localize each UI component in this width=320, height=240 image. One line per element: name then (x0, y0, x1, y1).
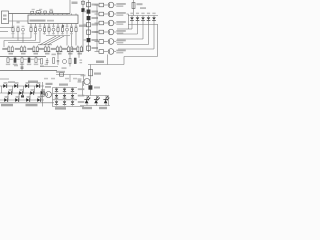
diode DM23 (63, 101, 66, 104)
diode DA3 (25, 84, 28, 88)
diode DC4 (37, 98, 40, 102)
wire matrix col 3 (72, 88, 74, 107)
ceramic filter F6 (67, 47, 69, 51)
resistor R18 (74, 58, 76, 64)
wire bus under caps (46, 35, 70, 37)
diode DM32 (71, 95, 74, 98)
wire Q11 base (43, 94, 46, 96)
label near U1 (17, 22, 20, 24)
resistor R17 (69, 58, 71, 64)
wire drop 1 (69, 75, 71, 83)
label Q6 type (116, 40, 126, 42)
diode DA2 (14, 84, 17, 88)
ceramic filter F7 (77, 47, 79, 51)
resistor R12 (21, 58, 23, 63)
component Z6 on chain (87, 38, 91, 42)
label 1N60 (28, 81, 38, 84)
component Z2 on chain (87, 10, 91, 14)
ceramic filter F5 (56, 47, 58, 51)
transistor Q5 (108, 29, 114, 35)
resistor R15 (41, 59, 43, 64)
diode DM13 (55, 101, 58, 104)
wire vertical mid (21, 63, 23, 71)
ceramic filter F3 (33, 47, 35, 51)
label mid small e (73, 78, 77, 80)
wire vertical x80 (82, 0, 84, 52)
wire right drop (157, 25, 159, 57)
diode DB4 (41, 91, 44, 95)
capacitor C19 (46, 60, 49, 62)
wire left routing c (8, 42, 40, 44)
label F3 value (34, 53, 39, 55)
inline resistor R2 on bus (44, 11, 47, 13)
U2 top pin wires (30, 14, 32, 16)
label IC2 TDA4503 (30, 20, 46, 22)
label FE3 (96, 61, 104, 64)
capacitor row C1-C14 below U2 (12, 28, 14, 32)
wire matrix rail 4 (53, 106, 85, 108)
wire bottom row2 rail (0, 92, 46, 94)
label Q4 type (116, 21, 126, 23)
label Q5 type (116, 30, 126, 32)
label matrix row1 (78, 88, 85, 90)
resistor R81 1W (133, 0, 135, 16)
diode DC3 (26, 98, 29, 102)
wire matrix step 5 (153, 25, 155, 50)
wire drop 2 (83, 75, 85, 87)
wire matrix rail 2 (53, 93, 78, 95)
diode DM22 (63, 95, 66, 98)
wire LED right rail (108, 96, 110, 106)
LED D52 (104, 100, 108, 104)
capacitor C20 (21, 66, 24, 68)
resistor R30 6.3W (89, 70, 93, 76)
label R81 value (140, 7, 146, 9)
wire drop p11 (75, 35, 77, 46)
coil L1 (36, 11, 41, 14)
IC U2 TDA4503 body (28, 15, 78, 24)
label F1 value (9, 53, 14, 55)
label mid small b (44, 78, 48, 80)
wire left pin feed (0, 27, 13, 29)
ceramic filter F4 (44, 47, 46, 51)
transistor Q6 (108, 39, 114, 45)
label F5 value (57, 53, 62, 55)
wire row link down (127, 13, 129, 15)
capacitor C15 (81, 1, 84, 4)
wire diode bus bottom (128, 24, 158, 26)
resistor R16 (53, 58, 55, 64)
label 10k (52, 54, 56, 56)
label right of U2 (79, 25, 87, 27)
U2 bottom pin wires (30, 24, 32, 28)
component Z4 on chain (87, 23, 91, 27)
wire diagonal 3 (48, 36, 64, 45)
resistor RB4 (95, 31, 100, 33)
wire bottom long rail (0, 102, 54, 104)
resistor RB5 (95, 41, 100, 43)
wire grid verticals upper (1, 86, 3, 93)
label matrix row3 (78, 101, 85, 103)
label Q10 (81, 75, 86, 77)
diode DB2 (19, 91, 22, 95)
label F1 YEX 85 (2, 48, 7, 50)
component Z1 on chain (87, 3, 91, 7)
wire LED top rail (82, 95, 109, 97)
wire top supply bus (9, 13, 71, 15)
resistor RB3 (95, 22, 100, 24)
label near drop2 (78, 80, 81, 82)
label F4 YEX 85 (39, 48, 44, 50)
wire vertical from U1 (12, 14, 14, 28)
diode DA1 (3, 84, 6, 88)
diode DM12 (55, 95, 58, 98)
capacitor C21 (57, 59, 59, 61)
transistor Q4 (108, 20, 114, 26)
label F2 YEX 85 (15, 48, 20, 50)
LED D50 (85, 100, 89, 104)
wire right chain vertical (88, 0, 90, 52)
wire drop p9 (66, 36, 68, 46)
label LED 1N60 (1, 104, 13, 107)
label Q3 type (116, 12, 126, 14)
LED D51 (94, 100, 98, 104)
label F6 YEX 85 (62, 48, 67, 50)
wire drop F7 to mid (78, 52, 80, 58)
wire LED bottom rail (80, 105, 110, 107)
wire diode bus top (128, 15, 158, 17)
component Z7 on chain (87, 46, 91, 50)
wire matrix rail 1 (53, 87, 78, 89)
resistor R14 (35, 58, 37, 63)
label 180ohm (82, 107, 92, 109)
resistor RB1 (95, 4, 100, 6)
wire matrix left rail (52, 88, 54, 107)
inline resistor R19 (60, 73, 64, 76)
transistor Q7 (108, 49, 114, 55)
label F5 YEX 85 (51, 48, 56, 50)
label mid small a (62, 67, 67, 69)
wire LED feed vertical (90, 65, 92, 96)
label 14V (72, 2, 78, 5)
wire lower link (9, 20, 29, 22)
wire vertical to top edge (69, 0, 71, 14)
wire left routing a (0, 37, 31, 39)
label LED (99, 107, 107, 109)
label 4.7 (14, 65, 18, 67)
wire drop F5 to mid (57, 52, 59, 60)
diode D23 (148, 16, 150, 18)
transistor Q1 (62, 59, 66, 63)
diode DM33 (71, 101, 74, 104)
label matrix top (59, 84, 68, 86)
IC module U1 box (2, 11, 9, 24)
small marks right mid (80, 60, 83, 61)
label Q10 pin b (78, 81, 82, 83)
resistor RB6 (95, 51, 100, 53)
wire Q10 left (83, 81, 85, 83)
diode D21 (137, 16, 139, 18)
resistor R10 (7, 58, 9, 63)
wire bus mid (38, 44, 52, 46)
diode DA4 (36, 84, 39, 88)
label F4 value (45, 53, 50, 55)
label matrix row2 (78, 95, 85, 97)
diode DM11 (55, 89, 58, 92)
label mid small d (65, 78, 69, 80)
wire driver feed vertical (96, 5, 98, 52)
diode DM21 (63, 89, 66, 92)
component Z3 on chain (87, 16, 91, 20)
label 145A (26, 104, 38, 107)
wire mid bus C (56, 74, 84, 76)
wire center-left vertical (42, 82, 44, 107)
wire bottom row3 rail (0, 99, 44, 101)
label Q10 pin a (78, 78, 82, 80)
transistor Q10 (84, 79, 90, 85)
label F7 YEX (71, 48, 76, 50)
wire mid bus B (0, 70, 57, 72)
wire drop F6 to mid (69, 52, 71, 58)
transistor Q2 (108, 2, 114, 8)
diode D15 (81, 8, 84, 12)
wire grid verticals lower (7, 93, 9, 100)
diode DM31 (71, 89, 74, 92)
wire drop p10 (71, 35, 73, 46)
wire row6 drop (107, 55, 109, 65)
wire drop to net FE (123, 57, 125, 65)
label Q7 type (116, 50, 126, 52)
wire bottom row1 rail (0, 85, 44, 87)
label 185B (55, 107, 66, 109)
wire mid link (40, 66, 58, 68)
diode DC1 (4, 98, 7, 102)
wire left routing b (4, 40, 36, 42)
wire diagonal 2 (44, 36, 60, 45)
resistor R13 (28, 58, 30, 63)
label Q2 type (116, 3, 126, 5)
label F7 value (78, 53, 83, 55)
label F3 YEX 85 (27, 48, 32, 50)
inline capacitor C16 on bus (50, 11, 53, 13)
diode DB3 (30, 91, 33, 95)
transistor Q11 (46, 92, 52, 98)
junction X mark (62, 25, 64, 27)
resistor RB2 (95, 13, 100, 15)
label Q11 type (45, 86, 51, 88)
component Z5 on chain (87, 30, 91, 34)
wire matrix step 3 (142, 25, 144, 40)
resistor R40 (41, 91, 44, 96)
wire matrix col 2 (64, 88, 66, 107)
wire matrix col 1 (56, 88, 58, 107)
label 18SB (46, 83, 53, 85)
diode D24 (153, 16, 155, 18)
wire net FE horizontal (88, 64, 124, 66)
ceramic filter F2 (20, 47, 22, 51)
wire matrix step 4 (148, 25, 150, 45)
resistor R11 (14, 58, 16, 63)
wire mid bus A (0, 56, 46, 58)
label mid small c (51, 78, 55, 80)
wire matrix step 2 (137, 25, 139, 35)
wire step 6 horizontal (124, 56, 158, 58)
diode DB1 (8, 91, 11, 95)
wire diagonal 1 (40, 36, 56, 45)
label F6 value (68, 53, 73, 55)
diode DB5 extra (21, 95, 24, 97)
label F2 value (21, 53, 26, 55)
ceramic filter F1 (8, 47, 10, 51)
inline resistor R1 on bus (31, 11, 34, 13)
wire matrix step 1 (131, 25, 133, 30)
diode DC2 (15, 98, 18, 102)
diode D22 (142, 16, 144, 18)
diode D20 (131, 16, 133, 18)
wire matrix rail 3 (53, 99, 78, 101)
wire stub left (0, 78, 9, 80)
transistor Q3 (108, 11, 114, 17)
label small bottomband (8, 81, 15, 83)
diode D30 (88, 85, 92, 89)
